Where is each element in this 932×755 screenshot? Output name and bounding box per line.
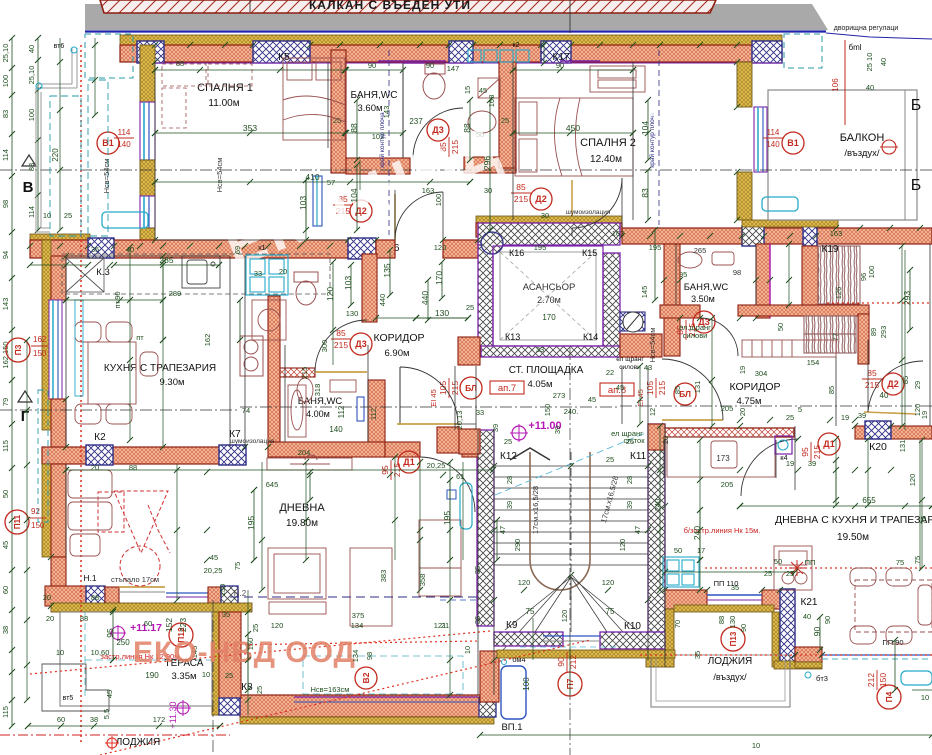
svg-text:45: 45 (105, 690, 114, 698)
svg-text:152: 152 (164, 618, 174, 632)
svg-text:4.05м: 4.05м (527, 379, 552, 390)
west wall corner H1 (51, 557, 66, 606)
stair tread fan (505, 577, 637, 632)
svg-text:25,10: 25,10 (27, 66, 36, 85)
door D2 right apt arc (868, 361, 923, 412)
svg-text:163: 163 (422, 186, 435, 195)
svg-text:35: 35 (731, 583, 739, 592)
svg-text:33: 33 (254, 269, 262, 278)
svg-text:163: 163 (612, 229, 625, 238)
svg-text:98: 98 (733, 268, 741, 277)
svg-text:СПАЛНЯ 1: СПАЛНЯ 1 (197, 82, 253, 94)
svg-text:120: 120 (560, 610, 569, 623)
svg-text:В1: В1 (787, 138, 799, 148)
svg-text:47: 47 (633, 526, 642, 534)
svg-text:150: 150 (218, 584, 227, 597)
svg-text:126: 126 (834, 287, 843, 300)
svg-text:20: 20 (661, 436, 670, 444)
svg-text:25: 25 (786, 413, 794, 422)
svg-text:30: 30 (541, 211, 549, 220)
svg-text:Н.1: Н.1 (83, 573, 97, 583)
axis G horizontal (620, 405, 932, 407)
red dim right top (844, 40, 846, 125)
kitchen counter left apt (62, 254, 330, 294)
svg-text:К19: К19 (822, 244, 839, 255)
svg-text:75: 75 (913, 556, 922, 564)
svg-text:25: 25 (764, 569, 772, 578)
svg-text:Д1: Д1 (403, 457, 414, 467)
svg-text:50: 50 (776, 323, 785, 331)
terrace window (166, 592, 208, 594)
partition spalnya2 left (499, 62, 516, 168)
svg-text:75: 75 (526, 607, 535, 616)
toilet near k1 (294, 272, 318, 305)
bath4 door leaf (315, 371, 367, 373)
bath36 sink (468, 111, 496, 133)
svg-text:19: 19 (738, 366, 747, 374)
svg-text:/въздух/: /въздух/ (844, 148, 879, 159)
yellow strip under stair band (497, 650, 675, 658)
svg-text:45: 45 (479, 86, 487, 95)
svg-text:70: 70 (673, 620, 682, 628)
red dotted near K19 (827, 302, 932, 304)
mid wall left insulation (30, 234, 90, 241)
svg-text:29: 29 (913, 381, 922, 389)
svg-text:190: 190 (145, 671, 159, 680)
elevator left wall (478, 245, 493, 355)
svg-text:10: 10 (921, 693, 929, 702)
svg-text:25: 25 (255, 686, 264, 694)
svg-text:К5: К5 (278, 52, 290, 63)
svg-text:дворищна регулаци: дворищна регулаци (834, 25, 899, 32)
svg-text:104: 104 (349, 188, 359, 202)
V2 circle (355, 667, 377, 689)
kitchen island right apt (774, 546, 812, 590)
more corridor6.90 dims (376, 317, 416, 319)
svg-text:25 10: 25 10 (865, 53, 874, 72)
axis letters (22, 155, 36, 166)
svg-text:60: 60 (1, 586, 10, 594)
svg-text:ЛОДЖИЯ: ЛОДЖИЯ (116, 737, 161, 748)
elevator cabin (493, 246, 603, 346)
svg-text:90: 90 (812, 627, 822, 637)
svg-text:17: 17 (697, 546, 705, 555)
svg-text:88: 88 (349, 123, 359, 133)
wardrobe clothes lower (804, 316, 856, 353)
svg-text:74: 74 (242, 406, 250, 415)
svg-text:Нсв=54см: Нсв=54см (648, 328, 657, 363)
svg-text:285: 285 (159, 255, 173, 265)
P11 circle (5, 510, 29, 534)
svg-text:121: 121 (434, 621, 447, 630)
svg-text:172: 172 (153, 715, 166, 724)
svg-text:195: 195 (246, 516, 256, 530)
svg-text:/въздух/: /въздух/ (713, 672, 747, 682)
svg-text:35: 35 (693, 651, 702, 659)
door leaf bedroom2 (571, 180, 573, 228)
door D1 right apt (741, 439, 798, 496)
corridor wall right piece (855, 426, 932, 439)
svg-text:215: 215 (657, 381, 667, 395)
svg-text:134: 134 (351, 621, 364, 630)
column H1 (86, 586, 105, 605)
svg-text:69: 69 (233, 246, 242, 254)
svg-text:240.: 240. (564, 407, 579, 416)
svg-text:114: 114 (767, 128, 780, 137)
corridor parapet right apt (665, 428, 794, 437)
teal dashed around terrace left (38, 390, 48, 522)
svg-text:19: 19 (920, 411, 929, 419)
svg-text:293: 293 (879, 326, 888, 339)
window in bottom wall (294, 696, 478, 698)
bed bedroom1 (283, 58, 345, 140)
column H2 (221, 586, 238, 605)
svg-text:К10: К10 (624, 621, 641, 632)
svg-text:10: 10 (43, 211, 51, 220)
svg-text:20,25: 20,25 (427, 461, 446, 470)
svg-text:ЛОДЖИЯ: ЛОДЖИЯ (708, 656, 753, 667)
svg-text:КАЛКАН С ВЪЕДЕН УТИ: КАЛКАН С ВЪЕДЕН УТИ (309, 0, 471, 12)
svg-text:145: 145 (640, 286, 649, 299)
svg-text:45: 45 (210, 553, 218, 562)
svg-text:6.90м: 6.90м (384, 348, 409, 359)
terrace top wall strip (51, 603, 252, 612)
stair rail U (530, 452, 590, 590)
window bedroom1 upper (140, 102, 155, 160)
washing under k1 (252, 300, 286, 340)
svg-text:103: 103 (298, 196, 308, 210)
loggia interior yellow strips (674, 605, 774, 612)
svg-text:20: 20 (91, 463, 99, 472)
bath35 left wall (664, 244, 680, 356)
bath4 tub (288, 385, 306, 437)
svg-text:120: 120 (271, 621, 284, 630)
svg-text:БАНЯ,WC: БАНЯ,WC (298, 396, 343, 407)
svg-text:Нсв=163см: Нсв=163см (311, 685, 350, 694)
svg-text:112: 112 (369, 408, 378, 420)
radiator bedroom1 (102, 212, 148, 228)
extra guide lines (162, 256, 164, 447)
wheelchair symbol (98, 491, 170, 586)
svg-text:40: 40 (27, 45, 36, 53)
svg-text:ап.7: ап.7 (498, 383, 516, 394)
svg-text:вт5: вт5 (63, 695, 74, 702)
svg-text:П13: П13 (729, 631, 738, 646)
svg-text:162,150: 162,150 (1, 341, 10, 368)
mid wall right of K6 (376, 240, 395, 258)
VP1 shaft (501, 666, 526, 719)
bed bedroom2 (515, 98, 633, 176)
svg-text:250: 250 (116, 638, 130, 647)
svg-text:25: 25 (466, 303, 474, 312)
svg-text:25: 25 (504, 437, 512, 446)
svg-text:353: 353 (243, 123, 257, 133)
svg-text:10: 10 (202, 670, 210, 679)
svg-text:645: 645 (266, 480, 279, 489)
bottom wall living left (240, 695, 494, 717)
svg-text:БЛ: БЛ (465, 383, 477, 393)
svg-text:12: 12 (648, 408, 657, 416)
pier below stairs (480, 651, 499, 702)
svg-text:240: 240 (653, 499, 662, 512)
svg-text:163: 163 (830, 229, 843, 238)
svg-text:90: 90 (556, 61, 564, 70)
P3 circle (6, 338, 30, 362)
axis B horizontal (0, 169, 932, 171)
svg-text:120: 120 (908, 474, 917, 487)
svg-text:215: 215 (334, 340, 348, 350)
svg-text:П3: П3 (13, 344, 23, 355)
svg-text:БАЛКОН: БАЛКОН (840, 132, 885, 144)
svg-text:28: 28 (625, 476, 634, 484)
stair right wall (648, 424, 665, 640)
svg-text:162: 162 (203, 334, 212, 347)
entrance door ap7 (399, 367, 401, 425)
mid wall right section (622, 228, 932, 244)
svg-text:383: 383 (379, 570, 388, 583)
door D3 bath36 (427, 119, 449, 141)
svg-text:сл.ток: сл.ток (623, 436, 645, 445)
svg-text:П11: П11 (13, 514, 22, 529)
regulation blue line (85, 30, 826, 32)
svg-text:10: 10 (752, 741, 760, 750)
loggia top wall pieces (665, 590, 707, 609)
svg-text:114: 114 (27, 206, 36, 218)
svg-text:289: 289 (169, 289, 182, 298)
svg-text:95: 95 (105, 628, 115, 638)
bath36 half partition (402, 63, 404, 158)
stove cyan left apt small (0, 0, 1, 1)
svg-text:75: 75 (606, 607, 615, 616)
svg-text:К13: К13 (505, 332, 520, 342)
stair diagonal strings (494, 575, 570, 660)
slab edge dashed navy verticals (388, 50, 390, 235)
svg-text:19: 19 (841, 413, 849, 422)
svg-text:98: 98 (1, 200, 10, 208)
west wall kitchen masonry upper (51, 256, 66, 300)
loggia left strip (665, 609, 674, 667)
svg-text:10,60: 10,60 (91, 648, 110, 657)
svg-text:265: 265 (694, 246, 707, 255)
svg-text:150: 150 (33, 349, 47, 358)
column K3 (88, 238, 114, 258)
scattered ticks (160, 253, 166, 259)
svg-text:40: 40 (879, 58, 888, 66)
cyan cupboard bedroom1 (313, 176, 322, 226)
round column K16 (481, 232, 503, 254)
svg-text:В: В (23, 179, 34, 196)
svg-text:5: 5 (798, 405, 802, 414)
svg-text:К9: К9 (506, 620, 518, 631)
door D1 left apt (420, 457, 475, 512)
svg-text:300: 300 (320, 340, 329, 353)
stair bottom window (543, 635, 600, 637)
loggia floor outline (651, 655, 790, 707)
north wall window marks (378, 60, 446, 62)
wardrobe bedroom2 top (590, 66, 645, 92)
ap7 box (490, 381, 524, 394)
svg-text:115: 115 (1, 440, 10, 452)
svg-text:39: 39 (858, 411, 866, 420)
svg-text:25: 25 (786, 569, 794, 578)
svg-text:50: 50 (674, 546, 682, 555)
red dotted bottom diagonals (30, 631, 490, 674)
wardrobe dashes bedroom1 (162, 64, 252, 128)
svg-text:19: 19 (786, 459, 794, 468)
svg-text:20: 20 (46, 614, 54, 623)
up arrow (510, 448, 550, 460)
svg-text:К16: К16 (509, 248, 524, 258)
bath36 left wall (331, 50, 346, 173)
balcony door window (754, 107, 767, 172)
svg-text:85: 85 (673, 386, 682, 394)
svg-text:2.70м: 2.70м (537, 295, 561, 305)
dashed recess right end (784, 34, 822, 68)
svg-text:131: 131 (898, 440, 907, 453)
svg-text:195: 195 (649, 243, 662, 252)
balcony cross mark (882, 140, 896, 154)
bath4 top wall piece (278, 368, 315, 377)
neighbour building grey band (85, 4, 828, 30)
terrace outline (60, 612, 212, 706)
svg-text:39: 39 (625, 501, 634, 509)
terrace door steps (119, 586, 165, 588)
svg-text:КОРИДОР: КОРИДОР (374, 332, 425, 344)
svg-text:3.60м: 3.60м (357, 103, 382, 114)
planter bottom right (901, 671, 932, 685)
room boundary thin lines (154, 62, 156, 240)
svg-text:бт3: бт3 (816, 674, 828, 683)
svg-text:89: 89 (869, 328, 878, 336)
bath36 bottom walls (346, 158, 410, 174)
pier before H2 (208, 587, 221, 605)
bath35 bottom wall (660, 305, 700, 318)
left bath k3 corner fixtures (246, 255, 288, 295)
svg-text:EI 45: EI 45 (636, 389, 645, 407)
svg-text:296: 296 (482, 156, 492, 170)
svg-text:Г: Г (21, 408, 30, 425)
svg-text:162: 162 (33, 335, 47, 344)
svg-text:25: 25 (606, 455, 614, 464)
svg-text:Д2: Д2 (535, 194, 546, 204)
svg-text:140: 140 (766, 140, 780, 149)
svg-text:В2: В2 (361, 672, 371, 683)
terrace right wall (212, 612, 219, 715)
dining table left (75, 322, 158, 424)
bath4 bottom wall / living top (268, 442, 385, 457)
svg-text:35: 35 (473, 616, 482, 624)
svg-text:КУХНЯ С ТРАПЕЗАРИЯ: КУХНЯ С ТРАПЕЗАРИЯ (104, 363, 216, 374)
east wall bedroom2 lower (737, 172, 752, 220)
landing stub walls (458, 337, 480, 365)
svg-text:85: 85 (516, 182, 526, 192)
svg-text:318: 318 (313, 384, 322, 397)
svg-text:150: 150 (543, 404, 552, 417)
right margin dims line (904, 250, 906, 430)
svg-text:100: 100 (434, 194, 443, 207)
svg-text:88: 88 (462, 123, 472, 133)
svg-text:150: 150 (246, 638, 255, 651)
svg-text:19.80м: 19.80м (286, 518, 318, 529)
svg-text:17см.x16,5/28: 17см.x16,5/28 (531, 486, 540, 534)
blue radiator corridor wall (357, 397, 364, 421)
svg-text:Д2: Д2 (887, 379, 898, 389)
svg-text:90: 90 (739, 624, 748, 632)
left margin dimension chains (11, 38, 13, 672)
svg-text:50: 50 (1, 490, 10, 498)
teal dashed bands left (50, 96, 81, 236)
svg-text:115: 115 (1, 706, 10, 718)
svg-text:35: 35 (473, 566, 482, 574)
svg-text:120: 120 (325, 287, 335, 301)
svg-text:85: 85 (827, 386, 836, 394)
svg-text:39: 39 (553, 426, 562, 434)
svg-text:105: 105 (645, 381, 655, 395)
svg-text:ЕКО-НВД ООД: ЕКО-НВД ООД (133, 636, 356, 669)
svg-text:11.00м: 11.00м (208, 98, 239, 109)
west wall kitchen: insulation (42, 240, 51, 430)
svg-text:134: 134 (351, 650, 360, 663)
window PP90 dashes (822, 654, 932, 656)
svg-text:88: 88 (176, 59, 184, 68)
svg-text:304: 304 (755, 369, 768, 378)
column at K8 (219, 698, 240, 715)
svg-text:30: 30 (484, 186, 492, 195)
pier right of wardrobe (858, 314, 869, 364)
svg-text:Нсв=54см: Нсв=54см (215, 158, 224, 193)
bath4 left wall (268, 296, 280, 450)
window bedroom1 lower (140, 196, 155, 228)
wall under K19 (738, 305, 869, 316)
svg-text:410: 410 (305, 172, 319, 182)
svg-text:220: 220 (51, 148, 60, 162)
svg-text:170: 170 (542, 313, 556, 322)
balcony outline (768, 90, 917, 220)
svg-text:147: 147 (447, 64, 460, 73)
stove tiles right apt (663, 557, 699, 587)
k2 cyan tiles (468, 50, 529, 62)
svg-text:215: 215 (514, 194, 528, 204)
svg-text:215: 215 (865, 380, 879, 390)
wall K2 row (42, 447, 245, 464)
svg-text:10: 10 (56, 648, 64, 657)
svg-text:440: 440 (420, 291, 430, 305)
hatched strip on top (100, 0, 716, 13)
svg-text:358: 358 (418, 574, 427, 587)
svg-text:К21: К21 (801, 597, 818, 608)
svg-text:85: 85 (867, 368, 877, 378)
svg-text:5,5: 5,5 (102, 709, 111, 719)
svg-text:195: 195 (442, 511, 452, 525)
window PP110 (707, 594, 762, 596)
bath35 right wall (756, 244, 770, 318)
svg-text:3.50м: 3.50м (691, 294, 715, 304)
svg-text:к2: к2 (513, 42, 520, 49)
svg-text:130: 130 (728, 616, 737, 629)
svg-text:90: 90 (823, 616, 832, 624)
sofa along west wall left apt (68, 470, 112, 556)
bath4 fixtures (297, 378, 356, 402)
svg-text:50: 50 (774, 557, 782, 566)
svg-text:204: 204 (298, 448, 311, 457)
svg-text:20: 20 (279, 267, 287, 276)
column K21 (780, 589, 795, 666)
svg-text:К11: К11 (630, 451, 647, 462)
svg-text:12.40м: 12.40м (590, 154, 622, 165)
svg-text:150: 150 (878, 673, 888, 687)
north wall insulation strip (120, 35, 782, 45)
svg-text:120: 120 (618, 539, 627, 552)
